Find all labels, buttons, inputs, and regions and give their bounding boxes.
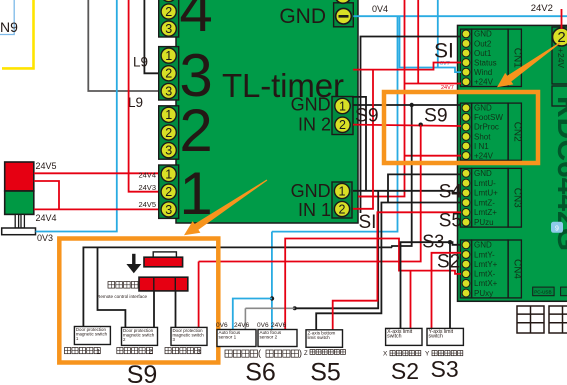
svg-text:GND: GND (474, 30, 492, 39)
svg-text:magnetic switch: magnetic switch (123, 333, 155, 338)
svg-text:LmtY+: LmtY+ (474, 260, 498, 269)
svg-text:2: 2 (179, 97, 212, 164)
svg-text:2: 2 (149, 349, 153, 356)
svg-text:GND: GND (474, 241, 492, 250)
svg-text:X: X (383, 351, 388, 358)
svg-text:Wind: Wind (474, 68, 492, 77)
svg-text:24V5: 24V5 (138, 200, 156, 209)
svg-text:24V4: 24V4 (36, 213, 57, 223)
svg-text:3: 3 (197, 349, 201, 356)
svg-text:I N1: I N1 (474, 142, 489, 151)
svg-text:LmtU-: LmtU- (474, 179, 496, 188)
svg-text:CN2: CN2 (512, 122, 523, 142)
svg-text:2: 2 (339, 202, 346, 216)
svg-text:LmtZ-: LmtZ- (474, 198, 495, 207)
svg-text:1: 1 (339, 99, 346, 113)
svg-text:GND: GND (279, 5, 326, 28)
svg-text:GND: GND (291, 0, 338, 3)
svg-text:0V6: 0V6 (216, 322, 228, 329)
svg-text:2: 2 (165, 5, 172, 19)
svg-text:Z: Z (304, 351, 308, 357)
svg-text:+24V: +24V (474, 151, 494, 160)
svg-text:PUxy: PUxy (474, 289, 493, 298)
svg-text:1: 1 (165, 108, 172, 122)
svg-text:IN 2: IN 2 (298, 115, 331, 135)
svg-text:PC-USB: PC-USB (534, 290, 551, 295)
svg-text:S2: S2 (391, 358, 419, 384)
svg-text:IN 1: IN 1 (298, 200, 331, 220)
svg-text:sensor 2: sensor 2 (260, 335, 278, 340)
svg-text:Status: Status (474, 58, 497, 67)
svg-text:4: 4 (179, 0, 212, 44)
svg-text:): ) (299, 348, 302, 358)
svg-text:0V3: 0V3 (37, 233, 53, 243)
svg-text:LmtY-: LmtY- (474, 250, 495, 259)
svg-text:switch: switch (387, 334, 402, 340)
svg-text:1: 1 (165, 0, 172, 1)
svg-text:(: ( (258, 348, 261, 358)
svg-text:0V4: 0V4 (372, 4, 388, 14)
svg-text:GND: GND (474, 169, 492, 178)
svg-text:3: 3 (165, 144, 172, 158)
svg-text:24V3: 24V3 (138, 183, 156, 192)
svg-text:GND: GND (291, 95, 331, 115)
svg-text:0V6: 0V6 (257, 322, 269, 329)
svg-text:2: 2 (165, 126, 172, 140)
svg-text:24V4: 24V4 (138, 171, 156, 180)
svg-text:1: 1 (165, 49, 172, 63)
svg-text:1: 1 (165, 167, 172, 181)
svg-text:S4: S4 (439, 182, 463, 203)
svg-text:S5: S5 (439, 211, 462, 232)
svg-text:1: 1 (97, 349, 101, 356)
svg-text:S5: S5 (310, 359, 341, 385)
svg-text:switch: switch (429, 334, 444, 340)
svg-text:S9: S9 (355, 106, 379, 127)
svg-text:LmtX-: LmtX- (474, 270, 496, 279)
svg-text:24V2: 24V2 (531, 3, 553, 14)
svg-text:Remote control interface: Remote control interface (97, 294, 147, 299)
svg-text:LmtU+: LmtU+ (474, 189, 498, 198)
svg-text:9: 9 (555, 226, 559, 233)
svg-text:3: 3 (165, 84, 172, 98)
svg-text:24V6: 24V6 (234, 322, 250, 329)
svg-text:Shot: Shot (474, 132, 491, 141)
svg-text:CN1: CN1 (512, 48, 523, 68)
svg-text:1: 1 (339, 184, 346, 198)
svg-text:sensor 1: sensor 1 (219, 335, 237, 340)
svg-text:3: 3 (165, 203, 172, 217)
svg-text:S3: S3 (431, 356, 459, 382)
svg-text:Y: Y (425, 351, 430, 358)
svg-text:FootSW: FootSW (474, 113, 503, 122)
svg-text:24V6: 24V6 (271, 322, 287, 329)
svg-text:LmtX+: LmtX+ (474, 279, 498, 288)
svg-text:S9: S9 (424, 106, 448, 127)
svg-text:L9: L9 (128, 95, 143, 110)
svg-text:limit switch: limit switch (308, 335, 331, 340)
svg-text:+24V: +24V (474, 78, 494, 87)
svg-text:2: 2 (165, 185, 172, 199)
svg-text:SI: SI (359, 212, 377, 233)
svg-text:2: 2 (339, 118, 346, 132)
svg-text:magnetic switch: magnetic switch (76, 332, 108, 337)
svg-text:magnetic switch: magnetic switch (173, 333, 205, 338)
svg-text:GND: GND (474, 104, 492, 113)
svg-text:S3: S3 (422, 232, 444, 252)
svg-text:24V5: 24V5 (36, 161, 57, 171)
svg-text:Out1: Out1 (474, 49, 492, 58)
svg-text:SI: SI (434, 40, 454, 63)
svg-text:S2: S2 (437, 252, 460, 273)
svg-text:+24V: +24V (556, 48, 566, 68)
svg-text:S6: S6 (245, 359, 276, 385)
svg-text:3: 3 (165, 22, 172, 36)
svg-text:DrProc: DrProc (474, 123, 499, 132)
svg-text:Out2: Out2 (474, 39, 492, 48)
svg-text:S9: S9 (127, 361, 158, 385)
svg-text:2: 2 (165, 67, 172, 81)
svg-text:CN4: CN4 (512, 259, 523, 279)
svg-text:L9: L9 (133, 55, 148, 70)
svg-text:CN3: CN3 (512, 188, 523, 208)
svg-text:N9: N9 (0, 19, 18, 35)
svg-text:LmtZ+: LmtZ+ (474, 208, 497, 217)
svg-text:GND: GND (291, 181, 331, 201)
svg-text:PUzu: PUzu (474, 218, 494, 227)
